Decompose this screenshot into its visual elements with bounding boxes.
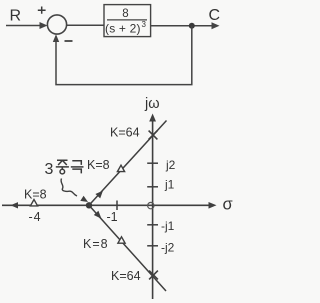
block U1 transfer function 8/(s+2)^3 (104, 5, 151, 37)
wire block to output C (151, 25, 213, 27)
tick j2 (147, 162, 158, 164)
svg-text:-j2: -j2 (161, 241, 175, 255)
triple pole dot at -2 (86, 202, 92, 208)
svg-text:σ: σ (223, 196, 233, 214)
svg-text:8: 8 (122, 8, 128, 20)
triangle marker K=8 at -4 (30, 200, 37, 206)
tick j1 (147, 186, 158, 188)
tick -j1 (147, 224, 158, 226)
upper root locus branch (89, 121, 167, 206)
sigma axis (2, 204, 212, 206)
hangul jung of 3중극 (56, 160, 69, 174)
svg-text:K=8: K=8 (83, 237, 109, 251)
svg-text:K=8: K=8 (87, 158, 110, 172)
minus sign (65, 40, 73, 42)
arrowhead on lower branch (94, 211, 102, 219)
triangle marker K=8 upper (117, 165, 124, 171)
svg-text:K=64: K=64 (111, 269, 141, 283)
svg-text:K=64: K=64 (110, 126, 140, 140)
origin circle marker (148, 202, 154, 208)
svg-text:j2: j2 (165, 158, 176, 172)
triangle marker K=8 lower (118, 237, 125, 243)
summing junction (47, 15, 66, 34)
tick -1 (116, 201, 118, 211)
svg-text:-j1: -j1 (161, 219, 175, 233)
plus sign (38, 7, 46, 14)
wire R to summing junction (6, 25, 41, 27)
svg-text:-1: -1 (107, 210, 118, 224)
tick -j2 (147, 245, 158, 247)
svg-text:R: R (10, 7, 22, 24)
svg-text:3: 3 (45, 161, 54, 178)
x marker K=64 lower (149, 271, 158, 280)
lower root locus branch (89, 205, 166, 291)
svg-text:j1: j1 (164, 177, 175, 191)
leader arrow from 3중극 to pole (61, 179, 77, 197)
svg-text:jω: jω (144, 96, 160, 112)
junction dot on output wire (189, 23, 195, 29)
svg-text:(s + 2): (s + 2) (105, 22, 141, 36)
feedback wire (56, 26, 192, 85)
hangul geuk of 3중극 (71, 161, 84, 174)
wire summing junction to block (67, 24, 104, 26)
svg-text:K=8: K=8 (24, 188, 47, 202)
jw axis (152, 119, 154, 299)
svg-text:C: C (209, 7, 221, 24)
svg-text:3: 3 (142, 20, 147, 29)
arrowhead on upper branch (95, 191, 103, 199)
x marker K=64 upper (149, 131, 158, 140)
svg-text:-4: -4 (29, 210, 42, 224)
